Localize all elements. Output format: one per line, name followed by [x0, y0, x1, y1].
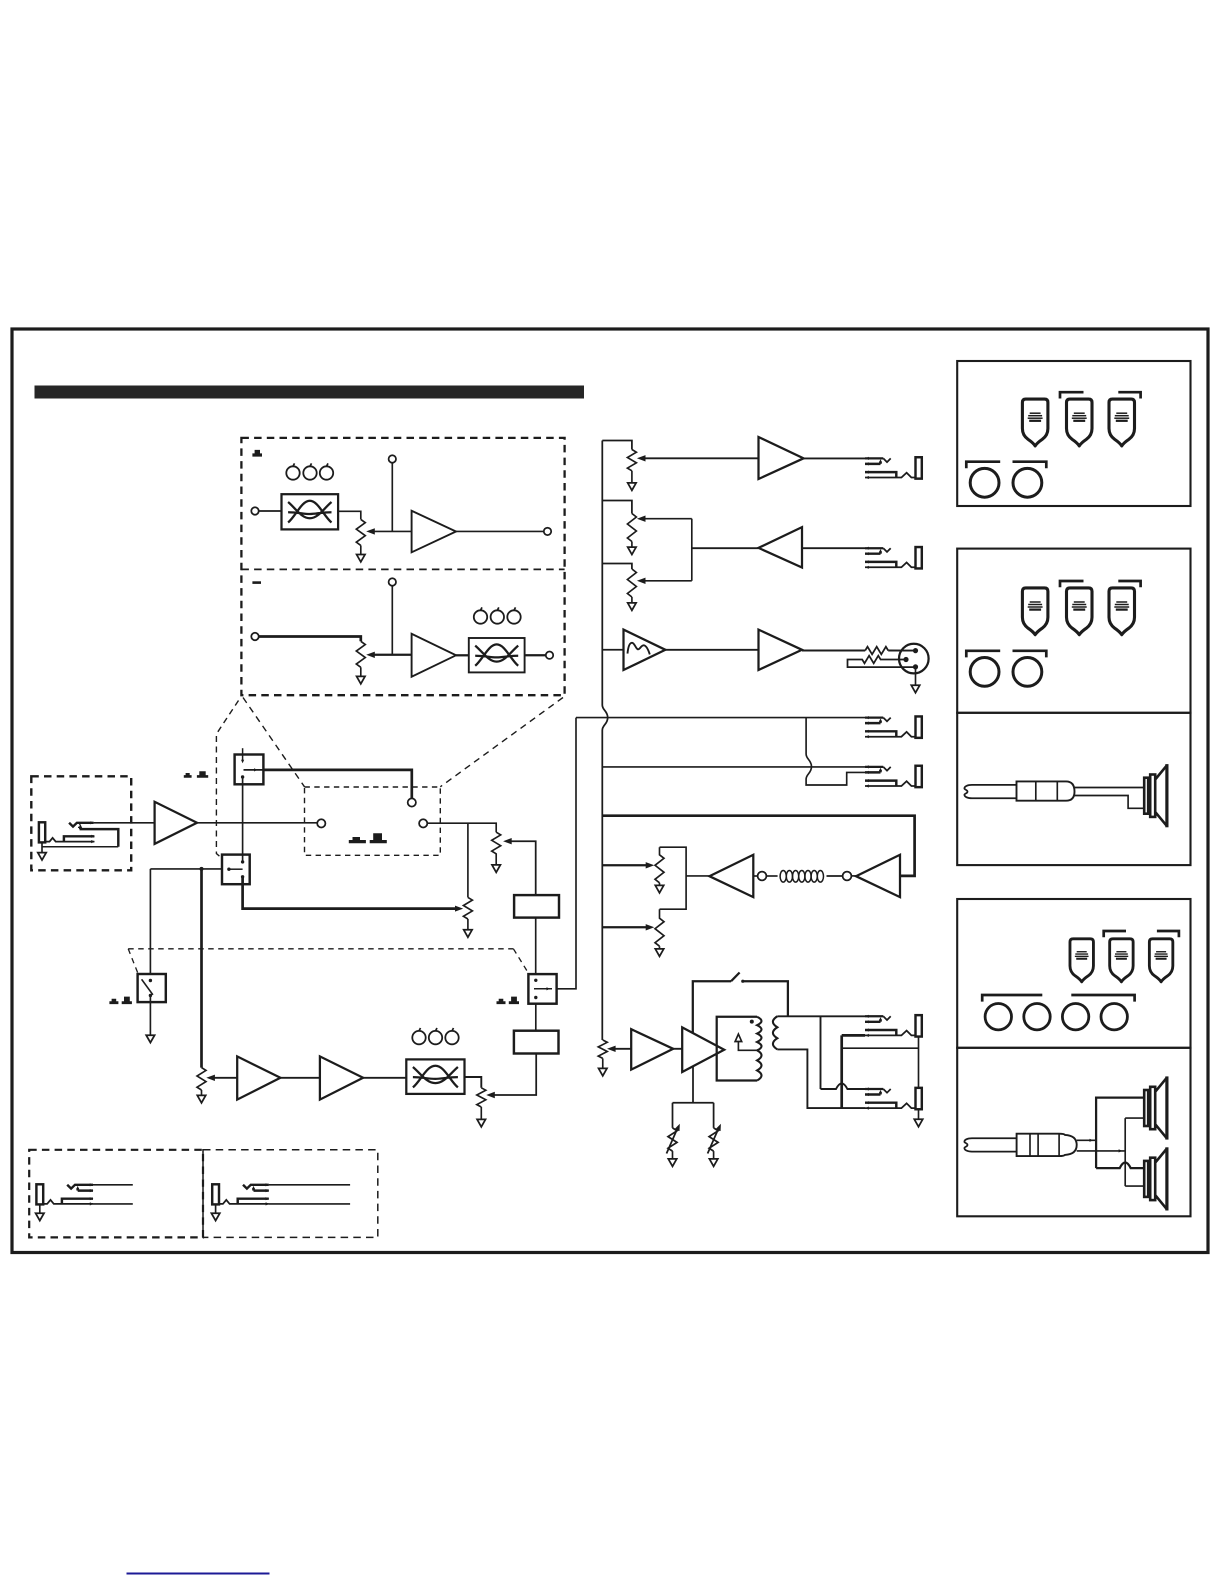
wire tie line to monitor amp U3 — [692, 547, 759, 549]
jack J2 line out — [865, 457, 922, 479]
wire SW1 output to callout top terminal — [263, 770, 411, 799]
footswitch jack JF2 ring contact — [254, 1188, 269, 1191]
jack J5 power amp in — [865, 765, 922, 787]
wire U6 to tank input — [852, 875, 857, 877]
pedal icons beside footswitch SW4 — [497, 999, 506, 1004]
input jack J1 ground — [41, 842, 43, 852]
footswitch jack JF1 tip contact — [67, 1185, 93, 1189]
footswitch dashed box L — [29, 1150, 203, 1238]
switch SW2 lever — [229, 868, 243, 870]
switch SW2 top contact — [241, 860, 244, 863]
wire tank block to return pot wiper — [491, 1054, 537, 1096]
knob shield S1 panel2 — [1022, 588, 1048, 635]
junction dot channel select — [200, 867, 204, 871]
ground speaker jack bushings — [918, 1109, 920, 1119]
bracket over shield S3 panel4 — [1157, 931, 1179, 937]
op-amp U3 (monitor return, faces left) — [759, 527, 803, 567]
wire power amp to load resistors — [673, 1067, 714, 1128]
wire monitor jack to U3 — [802, 547, 865, 549]
knob 1 channel A inset — [286, 463, 299, 479]
terminal top callout — [408, 798, 416, 806]
potentiometer R-rev-B — [655, 909, 664, 946]
wire U4 to U5 — [665, 649, 758, 651]
knob shield S3 panel2 — [1109, 588, 1135, 635]
leader dash inset right to callout box — [440, 698, 563, 787]
filter amp U4 with response curve — [624, 630, 666, 670]
pedal icons callout — [349, 837, 366, 843]
wire U7 to reverb mix pots — [686, 875, 709, 877]
stereo phone plug panel5 — [964, 1134, 1076, 1156]
footswitch contact SW3 box — [138, 974, 166, 1002]
round knob K2 panel2 — [1013, 658, 1042, 687]
bracket over knob K2 panel2 — [1013, 651, 1047, 658]
footswitch jack JF1 ring contact — [78, 1188, 93, 1191]
ground R3 — [631, 597, 633, 603]
transformer T1 primary frame — [717, 1017, 757, 1081]
wire input to pot channel B inset — [259, 637, 361, 642]
wiper arrow R5 — [503, 838, 512, 844]
switch SW2 bottom contact — [241, 875, 244, 878]
switch SW1 (pre/post) box — [235, 755, 264, 785]
wire U10 to U11 — [280, 1077, 320, 1079]
switch SW1 lever contact — [244, 769, 264, 771]
pedal icon channel B inset — [252, 581, 261, 584]
op-amp U11 (channel B stage 2) — [320, 1056, 363, 1099]
ground pot channel B inset — [360, 667, 362, 676]
wire to footswitch contact SW3 — [149, 869, 151, 974]
wire driver block to footswitch SW4 — [535, 918, 537, 975]
tank RCA output terminal — [758, 872, 767, 881]
bracket over shield S3 panel1 — [1118, 392, 1140, 398]
ground JF2 — [215, 1204, 217, 1213]
knob shield S2 panel4 — [1110, 939, 1133, 982]
output terminal channel B inset — [546, 652, 553, 659]
speaker 1 panel5 — [1144, 1076, 1167, 1139]
pedal icons beside switch SW1 — [184, 773, 192, 778]
knob 1 channel B EQ — [412, 1028, 425, 1044]
op-amp channel A inset — [412, 511, 456, 553]
reverb mix tie line — [660, 847, 687, 909]
footswitch jack JF1 bushing — [36, 1184, 43, 1204]
input jack dashed box — [31, 776, 131, 870]
XLR pin 1 — [913, 664, 918, 669]
wire junction arrow panel5 return — [1119, 1149, 1123, 1152]
power amplifier Q1 — [682, 1027, 724, 1072]
wire tank to return amp U7 — [753, 875, 757, 877]
round knob K2 panel1 — [1013, 468, 1042, 497]
wiper arrow channel B inset — [366, 652, 375, 658]
potentiometer R1 (channel A send) — [627, 450, 636, 471]
footswitch jack JF2 tip contact — [243, 1185, 269, 1189]
ground SW3 — [149, 1002, 151, 1035]
footswitch jack JF2 bushing — [212, 1184, 219, 1204]
wire bus to pot R3 — [602, 564, 632, 570]
wire return split vertical panel5 — [1125, 1118, 1144, 1186]
wire plug return panel5 — [1077, 1150, 1126, 1152]
ground R7 — [201, 1090, 203, 1095]
ground JF1 — [39, 1204, 41, 1213]
callout dashed box (EQ location) — [305, 787, 441, 855]
bracket over knobs K3-K4 panel4 — [1071, 995, 1134, 1002]
speaker cable panel3 — [1075, 788, 1145, 809]
EQ block channel A inset — [282, 494, 339, 529]
wire R4 wiper to driver amp U8 — [613, 1048, 631, 1050]
ground R2 — [631, 542, 633, 548]
knob shield S2 panel2 — [1067, 588, 1093, 635]
wire SW4 to preamp-out jack line — [557, 718, 576, 989]
normalling wire preamp out to power amp in (with hop) — [806, 718, 865, 785]
switch SW2 box — [222, 855, 250, 885]
SW4 contacts and lever — [534, 979, 537, 982]
knob shield S3 panel1 — [1109, 399, 1135, 446]
wire hot drop to speaker jack 2 (with hop) — [821, 1016, 866, 1089]
panel box 1 (front panel detail, top right) — [957, 361, 1190, 506]
potentiometer R2 (monitor mix A) — [627, 514, 636, 542]
EQ block channel B main — [406, 1059, 464, 1094]
wire channel B select to volume pot (thick vertical) — [200, 869, 203, 1068]
wire U11 to EQ block — [363, 1077, 406, 1079]
transformer T1 secondary winding — [773, 1016, 777, 1049]
wire SW1 to SW2 vertical — [242, 777, 244, 862]
wire bus to filter amp U4 — [602, 649, 623, 651]
wiper arrow R-rev-B from bus — [602, 926, 647, 928]
wiper arrow R1 — [637, 455, 646, 461]
wiper arrow R3 — [637, 578, 646, 584]
round knob K4 panel4 — [1101, 1004, 1127, 1030]
bracket over knob K1 panel2 — [966, 651, 1000, 658]
knob shield S3 panel4 — [1149, 939, 1172, 982]
ground R5 — [495, 853, 497, 865]
round knob K1 panel4 — [985, 1004, 1011, 1030]
reverb tank block — [514, 1031, 559, 1054]
knob 1 channel B inset — [474, 607, 487, 623]
ground R1 — [631, 471, 633, 483]
potentiometer channel B inset — [356, 641, 365, 667]
wiper arrow channel A inset — [366, 528, 375, 534]
SW3 lever and contacts — [142, 979, 153, 995]
jack J7 speaker out 2 — [865, 1087, 922, 1109]
output terminal channel A inset — [544, 528, 551, 535]
footswitch contact SW4 box — [528, 974, 556, 1004]
transformer T1 center tap arrow — [738, 1042, 757, 1051]
ground R8 — [480, 1107, 482, 1119]
switch SW1 bottom contact — [241, 775, 244, 778]
panel box 5 (dual speaker hookup, bottom right) — [957, 1048, 1190, 1217]
wire amp to EQ channel B inset — [456, 654, 469, 656]
wire R5 wiper to reverb driver block — [509, 841, 536, 895]
input jack J1 shunt contact — [64, 836, 95, 841]
XLR pin 2 — [913, 648, 918, 653]
wire bus to pot R2 — [602, 501, 632, 514]
potentiometer R-rev-A — [655, 847, 664, 883]
bushing tie wire — [842, 1037, 919, 1088]
knob 2 channel A inset — [303, 463, 316, 479]
terminal left callout — [317, 819, 325, 827]
wire U1 output to callout input terminal — [197, 822, 317, 824]
knob shield S2 panel1 — [1067, 399, 1093, 446]
footswitch jack JF2 shunt contact — [238, 1199, 269, 1204]
wire J1 tip to preamp U1 — [94, 822, 155, 824]
feedback wire with presence switch SW5 — [693, 981, 731, 1033]
potentiometer R3 (monitor mix B) — [627, 569, 636, 597]
potentiometer R8 (reverb return level) — [477, 1088, 486, 1107]
jack J6 speaker out 1 — [865, 1015, 922, 1037]
wire U8 to power amp — [673, 1048, 682, 1050]
wire SW2 left to footswitch line — [150, 868, 222, 870]
pedal icons beside footswitch SW3 — [109, 999, 118, 1004]
wire R1 wiper to amp U2 — [643, 457, 759, 459]
resistor R-pad hot — [865, 647, 888, 655]
wire bus to power amp in jack — [602, 766, 865, 768]
tank RCA input terminal — [843, 872, 852, 881]
wire amp to output channel A inset — [456, 530, 544, 532]
transformer T1 primary winding — [757, 1017, 761, 1051]
wire EQ to pot channel A inset — [338, 511, 361, 519]
bracket over knob K1 panel1 — [966, 462, 1000, 469]
potentiometer R5 (reverb send) — [492, 832, 501, 854]
driver op-amp U8 — [631, 1029, 673, 1069]
ground R4 — [602, 1058, 604, 1068]
ground XLR pin1 — [915, 667, 917, 685]
jack J4 preamp out — [865, 716, 922, 738]
pedal icon channel A inset — [252, 450, 262, 457]
thermal resistor RL2 — [709, 1128, 718, 1151]
op-amp U7 reverb return (faces left) — [709, 855, 753, 897]
panel box 4 (front panel detail, lower right) — [957, 899, 1190, 1048]
potentiometer R6 (patch level) — [467, 823, 469, 897]
op-amp U6 reverb drive (faces left) — [856, 855, 900, 897]
top terminal channel A inset — [389, 455, 396, 462]
switch SW1 top contact stub — [242, 748, 244, 761]
wire top terminal to wiper line channel A inset — [391, 463, 393, 532]
bracket over knobs K1-K2 panel4 — [982, 995, 1042, 1002]
reverb spring coil L1 — [827, 875, 843, 877]
wire wiper to amp channel A inset — [372, 530, 412, 532]
XLR pin 3 — [903, 657, 908, 662]
round knob K1 panel2 — [970, 658, 999, 687]
EQ block channel B inset — [469, 638, 525, 672]
knob shield S1 panel1 — [1022, 399, 1048, 446]
wire SW2 bottom to channel B pot (thick) — [243, 877, 456, 909]
knob shield S1 panel4 — [1070, 939, 1093, 982]
main bus wire with hop — [602, 441, 607, 1041]
op-amp U10 (channel B gain) — [237, 1056, 280, 1099]
inset dashed divider — [241, 568, 564, 570]
knob 3 channel A inset — [320, 463, 333, 479]
transformer T1 polarity dot — [750, 1020, 754, 1024]
monitor tie line — [691, 519, 693, 581]
wire EQ block to return pot R8 — [465, 1077, 482, 1088]
wiper arrow R4 — [607, 1046, 616, 1052]
wire callout output terminal to reverb send pot — [427, 823, 496, 832]
resistor R-pad cold with loop to pin1 — [848, 656, 916, 667]
wire hot to speaker2 with hop panel5 — [1096, 1163, 1144, 1169]
jack J3 monitor in — [865, 547, 922, 569]
EQ curves channel B inset — [475, 644, 518, 665]
bracket over shield S3 panel2 — [1118, 581, 1140, 587]
panel box 2 (front panel detail, mid right) — [957, 549, 1190, 713]
bracket over shield S2 panel1 — [1060, 392, 1084, 398]
EQ curves channel B main — [413, 1066, 458, 1088]
round knob K3 panel4 — [1062, 1004, 1088, 1030]
knob 2 channel B EQ — [429, 1028, 442, 1044]
wiper arrow R7 — [206, 1075, 215, 1081]
ground R6 — [467, 919, 469, 930]
footswitch jack JF2 sleeve contact — [219, 1200, 269, 1204]
thermal resistor RL1 — [668, 1128, 677, 1151]
potentiometer R7 (channel B volume) — [197, 1068, 206, 1090]
ground pot channel A inset — [360, 545, 362, 554]
wire EQ to output channel B inset — [525, 654, 546, 656]
op-amp U2 (line out driver) — [759, 437, 804, 479]
op-amp channel B inset — [412, 634, 456, 677]
knob 3 channel B inset — [507, 607, 520, 623]
terminal right callout — [419, 819, 427, 827]
potentiometer R4 (master volume) — [598, 1040, 607, 1058]
wire wiper to amp channel B inset — [372, 654, 412, 656]
phone plug (mono) panel3 — [964, 781, 1074, 800]
knob 3 channel B EQ — [445, 1028, 458, 1044]
bracket over shield S2 panel4 — [1104, 931, 1126, 937]
reverb driver block — [514, 895, 559, 918]
op-amp U5 (XLR driver) — [759, 630, 803, 670]
knob 2 channel B inset — [491, 607, 504, 623]
bracket over knob K2 panel1 — [1013, 462, 1047, 469]
wire preamp out line — [576, 717, 865, 719]
wire R2 wiper to tie line — [643, 518, 692, 520]
wire plug hot to speakers panel5 — [1077, 1139, 1096, 1141]
XLR connector — [899, 644, 929, 674]
ground RL2 — [713, 1151, 715, 1159]
input jack J1 bushing — [39, 822, 45, 842]
wire junction arrow panel5 hot — [1090, 1139, 1094, 1142]
wire R3 wiper to tie line — [643, 580, 692, 582]
leader dash inset left to callout box — [243, 698, 305, 787]
wire bus to pot R1 — [602, 441, 632, 450]
ground RL1 — [672, 1151, 674, 1159]
EQ curves channel A inset — [288, 501, 331, 523]
ground R-rev-B — [659, 946, 661, 949]
wiper arrow R-rev-A from bus — [602, 864, 647, 866]
wire bus to reverb drive amp (thick) — [602, 816, 914, 876]
footswitch jack JF1 shunt contact — [62, 1199, 93, 1204]
speaker panel3 — [1144, 764, 1167, 827]
wire pad to XLR pin2 — [888, 650, 915, 652]
outer border frame — [12, 329, 1208, 1253]
footswitch dashed box R — [203, 1150, 378, 1238]
round knob K1 panel1 — [970, 468, 999, 497]
input terminal channel A inset — [251, 507, 258, 514]
wire input to EQ channel A inset — [259, 510, 282, 512]
wire R7 wiper to amp U10 — [212, 1077, 237, 1079]
wire top terminal to wiper line channel B inset — [391, 586, 393, 655]
footer hyperlink underline — [127, 1573, 270, 1575]
bracket over shield S2 panel2 — [1060, 581, 1084, 587]
potentiometer channel A inset — [356, 519, 365, 545]
wire secondary cold to speaker jack sleeves — [777, 1049, 865, 1108]
input jack J1 sleeve contact — [45, 838, 94, 842]
round knob K2 panel4 — [1024, 1004, 1050, 1030]
wire secondary hot to speaker jack 1 — [777, 1015, 865, 1017]
wire U5 to pad resistor — [802, 650, 865, 652]
preamp op-amp U1 — [155, 802, 197, 844]
input jack J1 tip contact — [69, 823, 94, 827]
footswitch dashed cable line — [128, 948, 513, 950]
redacted title bar — [35, 386, 585, 399]
speaker 2 panel5 — [1144, 1147, 1167, 1210]
footswitch jack JF1 sleeve contact — [43, 1200, 93, 1204]
wire SW4 to reverb tank block — [535, 1004, 537, 1031]
input terminal channel B inset — [251, 633, 258, 640]
wire hot split vertical panel5 — [1096, 1098, 1144, 1169]
wiper arrow R2 — [637, 516, 646, 522]
sleeve tie wire J6-J7 — [842, 1035, 865, 1108]
input jack J1 ring contact loop — [80, 829, 119, 847]
top terminal channel B inset — [389, 578, 396, 585]
ground R-rev-A — [659, 883, 661, 886]
inset dashed boundary box (EQ detail) — [241, 438, 564, 695]
panel box 3 (speaker hookup, right) — [957, 713, 1190, 865]
wire U2 to line out jack — [804, 457, 865, 459]
leader dashes inset to preamp switch — [216, 701, 238, 735]
